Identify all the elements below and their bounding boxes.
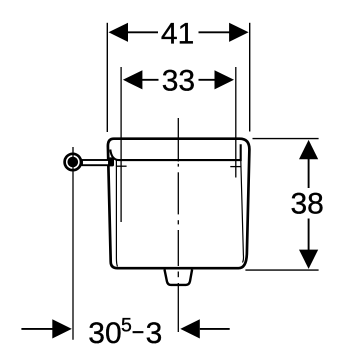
cistern outer body bbox=[108, 139, 250, 269]
flush outlet bbox=[165, 270, 193, 285]
dimension 41 arrow left bbox=[109, 23, 129, 42]
dimension 30.5-3 line right tail bbox=[200, 328, 230, 330]
inlet pipe flange bbox=[108, 157, 114, 166]
centerline dot 1 bbox=[177, 164, 179, 167]
dimension 41 arrow right bbox=[229, 23, 249, 42]
svg-text:33: 33 bbox=[162, 65, 195, 98]
dimension 30.5-3 arrow right bbox=[180, 319, 200, 338]
dimension 30.5-3 label dash bbox=[133, 331, 144, 333]
svg-text:3: 3 bbox=[146, 317, 163, 350]
centerline segment 1 bbox=[177, 118, 179, 162]
dimension 41 extension line right bbox=[249, 23, 251, 132]
centerline segment 2 bbox=[177, 172, 179, 214]
dimension 38 line lower segment bbox=[308, 219, 310, 252]
valve extension line bbox=[72, 147, 74, 340]
dimension 41 line right segment bbox=[199, 31, 232, 33]
dimension 38 extension line bottom bbox=[245, 269, 318, 271]
inlet pipe bbox=[82, 160, 109, 165]
inner wall left bbox=[116, 161, 117, 267]
dimension 38 arrow down bbox=[299, 250, 318, 269]
centerline dot 2 bbox=[177, 220, 179, 224]
svg-text:5: 5 bbox=[121, 314, 132, 336]
centerline dot 3 bbox=[177, 272, 179, 278]
inlet valve center bbox=[68, 157, 79, 168]
dimension 33 line left segment bbox=[141, 79, 159, 81]
dimension 33 line right segment bbox=[199, 79, 217, 81]
centerline segment 3 bbox=[177, 230, 179, 266]
svg-text:41: 41 bbox=[161, 17, 194, 50]
dimension 38 line upper segment bbox=[308, 158, 310, 188]
fixing hole cross left bbox=[116, 165, 127, 167]
dimension 30.5-3 line left tail bbox=[21, 328, 53, 330]
dimension 33 extension line left bbox=[120, 67, 122, 222]
dimension 33 extension line right bbox=[235, 67, 237, 178]
svg-text:38: 38 bbox=[291, 188, 324, 221]
svg-text:30: 30 bbox=[88, 317, 121, 350]
dimension 33 arrow left bbox=[123, 70, 142, 89]
dimension 41 line left segment bbox=[126, 31, 158, 33]
dimension 30.5-3 arrow left bbox=[52, 319, 72, 338]
inlet valve outer circle bbox=[65, 154, 81, 170]
inner wall right bbox=[241, 161, 244, 263]
dimension 41 extension line left bbox=[106, 23, 108, 132]
fixing hole cross right bbox=[230, 166, 241, 168]
dimension 38 arrow up bbox=[299, 140, 318, 159]
dimension 33 arrow right bbox=[215, 70, 235, 89]
centerline segment 4 bbox=[177, 283, 179, 332]
dimension 38 extension line top bbox=[253, 138, 319, 140]
cistern rim line bbox=[110, 144, 240, 160]
